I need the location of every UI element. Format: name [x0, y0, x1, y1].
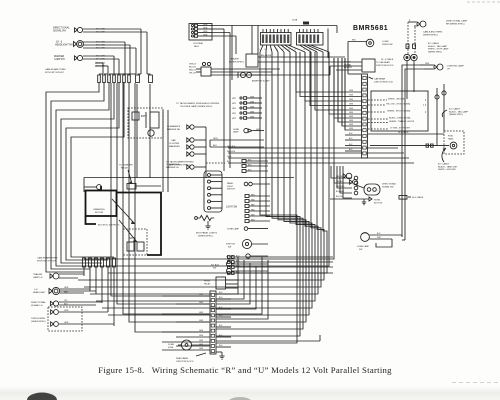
ammeter: [238, 66, 330, 83]
svg-text:CLEARANCE: CLEARANCE: [167, 125, 181, 128]
note cable and term: [423, 31, 442, 37]
heater relay label: [229, 58, 244, 64]
svg-text:GRN-BLK: GRN-BLK: [227, 146, 236, 148]
svg-text:HEADLIGHT RH: HEADLIGHT RH: [55, 44, 73, 47]
svg-text:BUZZER: BUZZER: [344, 67, 353, 69]
telltale connector rows: [232, 96, 262, 119]
directional signal switch body: [356, 184, 380, 195]
svg-text:BLK-YEL: BLK-YEL: [336, 196, 343, 198]
horn button: [330, 197, 383, 204]
junction block lower-left wires: [345, 133, 361, 151]
generator circle: [148, 130, 154, 136]
svg-text:TANK: TANK: [448, 137, 454, 140]
svg-text:GRN-RED: GRN-RED: [336, 186, 345, 188]
svg-text:TWIN HORNS: TWIN HORNS: [31, 318, 46, 320]
connector pair right: [406, 44, 416, 48]
note b-c cable tail lamp right: [442, 108, 468, 118]
twin horns dashed box: [31, 307, 82, 331]
svg-text:HTR: HTR: [232, 108, 237, 110]
svg-text:REAR PANEL: REAR PANEL: [176, 357, 189, 360]
svg-text:(WHEN SPEC): (WHEN SPEC): [428, 51, 442, 53]
svg-text:10GA: 10GA: [292, 19, 298, 22]
lamp directional LH: [50, 300, 102, 306]
svg-text:GRN: GRN: [349, 116, 354, 118]
junction strip left wires: [162, 294, 210, 350]
svg-text:GRN: GRN: [199, 330, 204, 332]
note cables-are-term lower: [37, 257, 58, 263]
battery cable bold runs: [86, 186, 162, 255]
svg-text:GRN: GRN: [199, 348, 204, 350]
svg-text:GRN: GRN: [203, 34, 208, 36]
wire lighting lamp trunk: [402, 65, 424, 240]
svg-text:SWITCH: SWITCH: [227, 189, 235, 191]
lamp trailer LH: [50, 273, 84, 279]
accessory connector column: [228, 254, 334, 274]
svg-text:DIRECTIONAL: DIRECTIONAL: [31, 301, 46, 304]
ground horn: [362, 199, 366, 205]
svg-text:GRN: GRN: [349, 90, 354, 92]
lamp clearance marker RH: [187, 125, 206, 129]
wire trunk connector tick: [399, 196, 424, 200]
svg-text:BLK-GRN: BLK-GRN: [96, 66, 105, 68]
wire tail lamp drops: [407, 61, 414, 99]
svg-text:SIGNAL LH: SIGNAL LH: [31, 304, 43, 307]
cigar lighter coil: [195, 215, 215, 220]
flt buzzer switch: [211, 261, 268, 273]
wire long run right of junction: [217, 335, 321, 341]
svg-text:TO TACHOGRAPH, WINDSHIELD WIPE: TO TACHOGRAPH, WINDSHIELD WIPERS,: [176, 102, 220, 105]
lamp directional RH cab: [343, 173, 357, 184]
note to tachograph lower: [166, 161, 225, 167]
horn relay: [204, 277, 238, 289]
wire stubs below lower connector row: [84, 267, 114, 326]
svg-text:TO STARTER: TO STARTER: [119, 164, 133, 167]
starter motor box: [86, 191, 117, 217]
svg-text:18 - 6 CABLE: 18 - 6 CABLE: [381, 58, 394, 61]
svg-text:GRN: GRN: [199, 294, 204, 296]
svg-text:GRN: GRN: [425, 63, 430, 65]
wire harness left fan bottom staircase into lower connector row: [46, 255, 114, 272]
junction block left stub labels: [349, 90, 354, 130]
svg-text:CLUSTER: CLUSTER: [169, 143, 180, 145]
svg-text:FUEL: FUEL: [448, 136, 454, 138]
svg-text:YELLOW - LH DIR SIGNAL: YELLOW - LH DIR SIGNAL: [386, 103, 411, 106]
wire clearance marker bus: [206, 127, 264, 178]
svg-text:PANEL: PANEL: [227, 182, 234, 185]
svg-text:IGNITION: IGNITION: [226, 244, 235, 246]
svg-text:BLK 0R W- 10 THRU(?): BLK 0R W- 10 THRU(?): [98, 225, 120, 227]
svg-text:JUNCTION BLOCK: JUNCTION BLOCK: [376, 65, 394, 67]
svg-text:BLK-GRN: BLK-GRN: [96, 42, 105, 44]
node light sw label: [226, 207, 238, 209]
heater relay box: [246, 54, 345, 67]
svg-text:GRN: GRN: [199, 302, 204, 304]
svg-text:GRN: GRN: [349, 99, 354, 101]
svg-text:GRN: GRN: [64, 287, 69, 289]
svg-text:BMR5681: BMR5681: [353, 25, 388, 32]
page bottom shading: [0, 386, 500, 400]
svg-text:GRN: GRN: [203, 31, 208, 33]
svg-text:GRN: GRN: [250, 111, 255, 113]
svg-text:BLK: BLK: [213, 145, 217, 147]
svg-text:DIRECTIONAL LAMP: DIRECTIONAL LAMP: [446, 20, 468, 23]
ground instrument: [205, 221, 210, 229]
wire regulator feeds: [212, 26, 258, 172]
svg-text:L H: L H: [34, 289, 38, 291]
svg-text:B-C CABLE: B-C CABLE: [438, 163, 450, 166]
svg-text:LAMP (WHEN SPEC ): LAMP (WHEN SPEC ): [168, 164, 190, 167]
svg-text:FLT BUZ: FLT BUZ: [211, 265, 220, 267]
node headlight RH label: [55, 41, 73, 47]
svg-text:SIGNAL RH: SIGNAL RH: [53, 30, 66, 33]
svg-text:BLACK - DIRECTIONAL: BLACK - DIRECTIONAL: [389, 117, 412, 120]
scanner smudge bottom center: [228, 397, 252, 400]
misc connector rows light area: [242, 159, 270, 222]
svg-text:YEL-RT: YEL-RT: [189, 73, 197, 75]
panel light switch: [227, 182, 270, 191]
svg-text:AM GAUGE: AM GAUGE: [261, 54, 272, 57]
trailer socket verticals: [435, 84, 446, 146]
top right faint mark: [467, 1, 500, 3]
rear panel junction strip: [210, 291, 216, 354]
svg-text:LT GRN - STOPLIGHT: LT GRN - STOPLIGHT: [390, 128, 411, 130]
svg-text:LO AIR: LO AIR: [382, 40, 389, 43]
svg-text:HORN: HORN: [204, 281, 210, 283]
hi beam indicator: [226, 254, 268, 261]
svg-text:WHITE - GROUND: WHITE - GROUND: [438, 169, 456, 171]
ignition switch: [226, 239, 268, 248]
terminal block group 1: [261, 29, 292, 45]
node voltage regulator label: [193, 42, 204, 48]
svg-text:GRN: GRN: [227, 156, 232, 158]
svg-text:CAB REAR: CAB REAR: [374, 78, 386, 81]
BMR5681 marking: [353, 25, 388, 32]
dome lamp mid: [233, 128, 264, 133]
connector row firewall upper: [98, 75, 153, 83]
fuel tank dashed box: [444, 131, 464, 154]
lamp marker RH: [74, 55, 82, 60]
svg-text:WITH 3/8″ EYELET: WITH 3/8″ EYELET: [37, 260, 57, 262]
lamp cab cluster markers: [187, 138, 206, 156]
wire bottom loop crossings: [0, 0, 1, 1]
svg-text:TELLTALE LAMP (WHEN SPEC): TELLTALE LAMP (WHEN SPEC): [180, 105, 212, 108]
node trailer lamp LH label: [33, 273, 43, 279]
solenoid small box: [127, 184, 161, 190]
lamp directional RH top: [408, 20, 426, 27]
svg-text:LAMP RH: LAMP RH: [54, 58, 65, 61]
svg-text:GRN: GRN: [199, 320, 204, 322]
wire feeds directional switch: [331, 166, 352, 198]
trailer cable dashed runs: [368, 97, 427, 130]
wire harness central drops and nested bottom loops: [78, 52, 334, 343]
note b-c cable tank unit: [438, 148, 458, 171]
svg-text:HTR: HTR: [232, 98, 237, 100]
wire harness cab verticals: [111, 83, 209, 332]
svg-text:SIGNAL SW: SIGNAL SW: [382, 185, 394, 188]
note to tachograph upper: [176, 102, 256, 108]
svg-text:BUTTON: BUTTON: [374, 202, 383, 204]
svg-text:DOME LAMP: DOME LAMP: [357, 245, 370, 248]
svg-text:WITH 3/8″ EYELET: WITH 3/8″ EYELET: [45, 72, 65, 74]
note ground cable: [98, 225, 120, 227]
svg-text:JUNCTION BLOCK: JUNCTION BLOCK: [176, 361, 194, 363]
svg-text:Figure 15-8. Wiring Schemati: Figure 15-8. Wiring Schematic “R” and “U…: [98, 365, 392, 375]
directional switch terminals: [354, 176, 358, 195]
svg-text:SW: SW: [228, 246, 231, 248]
voltage regulator box: [189, 24, 212, 41]
lamp directional-signal RH: [74, 27, 82, 32]
svg-text:FUSE: FUSE: [168, 347, 174, 349]
wire fuel tank feed: [370, 144, 449, 147]
svg-text:(WHEN SPEC): (WHEN SPEC): [229, 61, 244, 63]
node terminal tick labels: [258, 45, 329, 52]
svg-text:BLK-GRN: BLK-GRN: [96, 63, 105, 65]
svg-text:GRN: GRN: [349, 124, 354, 126]
svg-text:DIRECTIONAL: DIRECTIONAL: [382, 183, 397, 186]
svg-text:(WHEN SPEC): (WHEN SPEC): [31, 321, 46, 323]
svg-text:HTR: HTR: [232, 118, 237, 120]
svg-text:BATT: BATT: [141, 115, 147, 118]
svg-text:LH: LH: [447, 68, 450, 70]
trailer cable boundary box: [371, 91, 428, 131]
svg-text:BLK-GRN: BLK-GRN: [96, 29, 105, 31]
light switch cluster: [189, 62, 280, 76]
wire runs to fuel tank and right side: [227, 146, 414, 163]
svg-text:RELAY: RELAY: [121, 167, 129, 170]
cab rear junction block: [362, 74, 368, 158]
svg-text:CABLES ARE TERM: CABLES ARE TERM: [37, 257, 58, 260]
tail lamp LH: [411, 54, 417, 60]
svg-text:GRN: GRN: [349, 104, 354, 106]
amp press switch: [348, 39, 393, 74]
dome lamp switch: [357, 233, 402, 251]
svg-text:18-6 CABLE: 18-6 CABLE: [398, 131, 409, 134]
svg-text:SW: SW: [359, 249, 362, 251]
svg-text:GRN: GRN: [250, 101, 255, 103]
note cables-are-term upper: [45, 68, 66, 74]
svg-text:TRAILER: TRAILER: [33, 273, 43, 276]
svg-text:TO CAB REAR: TO CAB REAR: [376, 61, 390, 64]
connector row bulkhead lower: [83, 258, 116, 267]
terminal block group 2: [297, 29, 324, 45]
wire 18-6 cable run: [368, 131, 444, 134]
lamp headlight RH: [74, 41, 84, 48]
svg-text:BLACK - TAIL LAMP: BLACK - TAIL LAMP: [449, 110, 469, 113]
annotation arrow battery 2: [119, 220, 137, 242]
svg-text:GRN: GRN: [349, 95, 354, 97]
wire harness extra verticals: [137, 84, 168, 192]
svg-text:RH (WHEN SPEC): RH (WHEN SPEC): [446, 23, 465, 25]
svg-text:GRN: GRN: [203, 27, 208, 29]
svg-text:HORN: HORN: [374, 200, 380, 202]
lamp lighting LH: [420, 63, 464, 70]
svg-text:MARKERS: MARKERS: [169, 145, 180, 148]
annotation arrow to starter relay: [119, 164, 133, 185]
node directional lamp RH label: [446, 20, 468, 26]
svg-text:RED: RED: [64, 291, 69, 293]
svg-text:MARKER RH: MARKER RH: [167, 128, 181, 131]
wire risers lower center to junction strip: [217, 257, 269, 319]
node marker lamp RH label: [54, 55, 65, 61]
bottom right faint dashes: [452, 382, 500, 384]
wire engine harness horizontal: [84, 178, 294, 193]
svg-text:BLK-GRN: BLK-GRN: [96, 59, 105, 61]
svg-text:HTR: HTR: [232, 103, 237, 105]
svg-text:SW: SW: [213, 267, 216, 269]
note 18-6 cable cab rear: [376, 58, 394, 67]
svg-text:B-C CABLE: B-C CABLE: [449, 108, 461, 111]
svg-text:BLACK - TAIL LAMP: BLACK - TAIL LAMP: [428, 45, 448, 48]
node directional signal sw label: [382, 183, 397, 189]
svg-text:BLK-GRN: BLK-GRN: [96, 45, 105, 47]
ground junction strip: [217, 352, 225, 359]
svg-text:LIGHT: LIGHT: [227, 186, 234, 188]
svg-text:GRN-LT: GRN-LT: [189, 64, 197, 66]
svg-text:DOME LAMP: DOME LAMP: [227, 228, 240, 231]
node directional signal RH label: [53, 27, 70, 33]
battery box lower (dashed): [123, 229, 147, 255]
svg-text:VOLTAGE: VOLTAGE: [193, 42, 204, 45]
node clearance marker labels: [166, 125, 181, 169]
junction strip right stubs: [217, 292, 232, 347]
svg-text:JUNCTION BLOCK: JUNCTION BLOCK: [374, 81, 394, 83]
caption figure 15-8: [98, 365, 392, 375]
lamp headlight LH: [49, 287, 96, 295]
node cab rear junction label: [369, 77, 394, 83]
svg-text:WHITE - STOP LAMP: WHITE - STOP LAMP: [428, 48, 449, 51]
svg-text:GRN: GRN: [250, 106, 255, 108]
svg-text:WHITE - GROUND: WHITE - GROUND: [388, 99, 406, 101]
svg-text:HEATER: HEATER: [230, 58, 239, 61]
svg-text:DOME: DOME: [168, 344, 175, 346]
svg-text:(WHEN SPEC): (WHEN SPEC): [198, 235, 213, 237]
svg-text:PRESS SW: PRESS SW: [382, 44, 393, 46]
svg-text:GRN: GRN: [349, 120, 354, 122]
bus bar wire: [211, 19, 337, 81]
horn lower: [51, 322, 114, 327]
svg-text:GRN: GRN: [64, 310, 69, 312]
svg-text:GRN: GRN: [203, 24, 208, 26]
scanner blob bottom left: [27, 393, 57, 400]
svg-text:RED-BLK: RED-BLK: [227, 151, 236, 153]
node LH headlight label: [33, 289, 46, 294]
node rear panel junction label: [176, 353, 206, 363]
svg-text:GRN: GRN: [213, 138, 218, 140]
svg-text:GRN: GRN: [349, 108, 354, 110]
note b-c cable stop lamp: [428, 42, 449, 53]
svg-text:GRN: GRN: [349, 112, 354, 114]
svg-text:BLK-GRN: BLK-GRN: [96, 32, 105, 34]
battery box upper (dashed): [128, 108, 163, 138]
svg-text:LIGHTING LAMP: LIGHTING LAMP: [447, 65, 464, 68]
signal buzzer: [330, 59, 375, 72]
wire trunk bottom corners: [402, 235, 405, 240]
svg-text:LAMP: LAMP: [233, 131, 239, 134]
svg-text:B-C CABLE: B-C CABLE: [428, 42, 440, 45]
svg-text:(WHEN SPEC): (WHEN SPEC): [423, 34, 438, 36]
wire dashed drops top right: [408, 22, 415, 54]
svg-text:RELAY: RELAY: [204, 282, 211, 285]
svg-text:BLU-WHT: BLU-WHT: [336, 191, 345, 193]
svg-text:BLACK - TANK UNIT: BLACK - TANK UNIT: [438, 165, 458, 168]
svg-text:No 6 CABLE: No 6 CABLE: [412, 196, 424, 199]
dome lamp switch row: [227, 227, 268, 231]
svg-text:MOTOR: MOTOR: [95, 212, 104, 214]
svg-text:CABLE AND TERM: CABLE AND TERM: [423, 31, 442, 34]
svg-text:GRN: GRN: [250, 96, 255, 98]
svg-text:HTR: HTR: [232, 113, 237, 115]
svg-text:CABLES ARE TERM: CABLES ARE TERM: [45, 68, 66, 71]
svg-text:GRN: GRN: [199, 340, 204, 342]
wire lamp leads turning down to connector row: [103, 29, 147, 74]
svg-text:CRANKING: CRANKING: [93, 208, 105, 211]
horn upper: [51, 310, 108, 315]
wire harness left fan staircase: [46, 83, 124, 255]
svg-text:CAB: CAB: [171, 139, 176, 142]
svg-text:GREEN - RH DIR SIGNAL: GREEN - RH DIR SIGNAL: [387, 110, 412, 113]
svg-text:GRN: GRN: [250, 116, 255, 118]
svg-text:LAMP LH: LAMP LH: [33, 276, 43, 279]
svg-text:HEADLIGHT: HEADLIGHT: [33, 291, 46, 294]
svg-text:(WHEN SPEC): (WHEN SPEC): [449, 114, 463, 116]
wire jogs into connector row: [99, 73, 151, 75]
svg-text:YEL: YEL: [64, 300, 68, 302]
wire lamp RH leads: [83, 29, 147, 66]
svg-text:GRN: GRN: [349, 128, 354, 130]
svg-text:TO TACHOGRAPH RH END: TO TACHOGRAPH RH END: [166, 161, 194, 164]
svg-text:GRN: GRN: [199, 335, 204, 337]
svg-text:INST PANEL LIGHTS: INST PANEL LIGHTS: [196, 232, 218, 235]
svg-text:REG: REG: [194, 46, 199, 48]
svg-text:GRN: GRN: [64, 322, 69, 324]
svg-text:GRN: GRN: [256, 129, 261, 131]
svg-text:AMMETER 30 AMP: AMMETER 30 AMP: [252, 80, 270, 83]
connector circle starter: [84, 185, 101, 190]
note inst panel lights: [196, 232, 218, 238]
svg-text:BLK-GRN: BLK-GRN: [96, 48, 105, 50]
annotation arrow battery 1: [112, 199, 135, 224]
tail lamp RH: [404, 54, 410, 60]
svg-text:BLK-RT: BLK-RT: [189, 67, 197, 69]
node directional signal LH label: [31, 301, 46, 307]
node lead labels: [96, 29, 105, 68]
svg-text:BLK-GRN: BLK-GRN: [96, 56, 105, 58]
lamp clearance marker LH: [187, 165, 206, 169]
wire harness central verticals to right junction block: [296, 29, 362, 131]
svg-text:GRN: GRN: [199, 312, 204, 314]
svg-text:RED-LT: RED-LT: [189, 70, 197, 72]
dome fuse: [168, 340, 210, 350]
light switch box: [204, 171, 222, 212]
svg-text:LIGHT SW: LIGHT SW: [226, 207, 238, 209]
